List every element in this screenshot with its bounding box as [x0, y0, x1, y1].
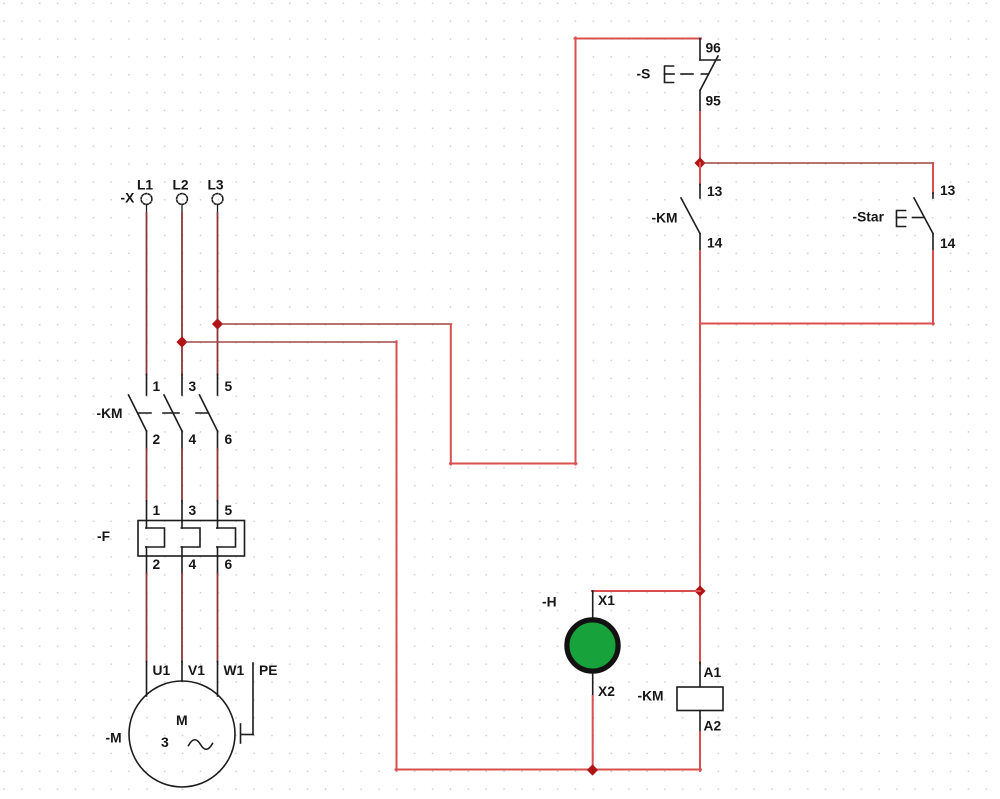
terminal -X L1	[137, 178, 153, 205]
Star pin 13	[933, 183, 956, 198]
F pole2 pin 3	[182, 501, 197, 528]
wire control horizontal y464	[450, 463, 577, 465]
svg-text:V1: V1	[188, 663, 205, 678]
svg-text:4: 4	[189, 432, 197, 447]
wire KM4 to F3 phase2	[181, 449, 183, 502]
wire net L3 vertical	[217, 213, 219, 375]
junction node at 700,591	[694, 585, 705, 596]
svg-text:-M: -M	[106, 731, 122, 746]
svg-text:5: 5	[225, 503, 233, 518]
KM pole1 pin 2	[147, 431, 161, 449]
wire Star branch corner down	[932, 163, 934, 193]
coil pin A2	[700, 711, 721, 734]
F body rectangle	[138, 521, 245, 557]
wire bottom return horizontal y770	[396, 769, 702, 771]
svg-text:-KM: -KM	[652, 211, 678, 226]
KM mechanical linkage dashed	[138, 412, 209, 414]
F pole1 heater element	[146, 528, 165, 547]
svg-text:95: 95	[706, 94, 722, 109]
terminal -X L3	[208, 178, 224, 205]
Star actuator	[897, 211, 924, 227]
svg-text:6: 6	[225, 432, 233, 447]
svg-text:6: 6	[225, 557, 233, 572]
svg-text:-X: -X	[121, 191, 136, 206]
S actuator	[665, 66, 709, 83]
svg-text:96: 96	[706, 41, 722, 56]
wire KM2 to F1 phase1	[146, 449, 148, 502]
svg-text:1: 1	[153, 379, 161, 394]
F pole2 pin 4	[182, 547, 197, 574]
wire L3 tap corner down	[450, 325, 452, 465]
wire net L1 vertical	[146, 213, 148, 375]
svg-text:PE: PE	[259, 663, 277, 678]
motor sine symbol	[189, 740, 213, 750]
svg-text:-KM: -KM	[97, 406, 123, 421]
svg-text:-Star: -Star	[853, 210, 885, 225]
svg-text:M: M	[176, 712, 188, 728]
svg-text:13: 13	[940, 183, 956, 198]
svg-text:X2: X2	[598, 684, 615, 699]
svg-text:2: 2	[153, 432, 161, 447]
KM pole1 blade	[129, 395, 147, 431]
junction on L2	[176, 336, 187, 347]
KM pole3 pin 6	[218, 431, 233, 449]
svg-text:-S: -S	[637, 67, 651, 82]
F pole1 pin 2	[147, 547, 161, 574]
wire net L2 vertical	[181, 213, 183, 375]
F pole3 pin 5	[218, 501, 233, 528]
KM pole2 pin 3	[182, 375, 197, 396]
wire L3 terminal pin	[217, 205, 219, 214]
svg-text:14: 14	[940, 236, 956, 251]
KM aux pin 14	[700, 234, 723, 252]
junction node at 592,770	[587, 764, 598, 775]
wire coil A2 down	[699, 732, 701, 771]
svg-text:W1: W1	[224, 663, 245, 678]
svg-text:-H: -H	[542, 595, 557, 610]
wire Star 14 down	[932, 251, 934, 325]
motor pin V1	[182, 662, 205, 682]
F pole1 pin 1	[147, 501, 161, 528]
wire Star return horizontal y323	[700, 323, 934, 325]
KM aux blade	[681, 198, 700, 234]
svg-text:3: 3	[189, 379, 197, 394]
svg-text:L2: L2	[173, 178, 189, 193]
wire control vertical x577	[575, 38, 577, 465]
svg-text:14: 14	[707, 236, 723, 251]
wire return vertical x392	[396, 341, 398, 770]
svg-text:L3: L3	[208, 178, 224, 193]
svg-text:L1: L1	[137, 178, 153, 193]
svg-text:13: 13	[707, 184, 723, 199]
Star blade	[914, 198, 933, 234]
svg-text:3: 3	[189, 503, 197, 518]
junction on L3	[212, 318, 223, 329]
terminal -X L2	[173, 178, 189, 205]
wire junction to lamp horizontal	[592, 590, 700, 592]
S NC contact bar	[700, 59, 720, 61]
svg-text:3: 3	[161, 734, 169, 750]
wire KM aux 14 down	[699, 251, 701, 663]
S blade	[700, 56, 718, 91]
coil pin A1	[700, 663, 721, 688]
svg-text:A2: A2	[704, 719, 722, 734]
KM pole2 blade	[164, 395, 182, 431]
F pole2 heater element	[181, 528, 200, 547]
motor pin PE	[253, 663, 277, 735]
S pin 95	[700, 91, 721, 113]
KM pole3 blade	[200, 395, 218, 431]
svg-text:-KM: -KM	[638, 689, 664, 704]
wire KM6 to F5 phase3	[217, 449, 219, 502]
wire lamp X2 down	[592, 696, 594, 770]
svg-text:5: 5	[225, 379, 233, 394]
svg-text:-F: -F	[97, 529, 110, 544]
svg-text:X1: X1	[598, 593, 615, 608]
lamp pin X1	[593, 591, 616, 618]
wire F6 to motor W1	[217, 574, 219, 662]
motor pin W1	[218, 662, 245, 697]
wire control top horizontal y38	[575, 38, 702, 40]
wire F4 to motor V1	[181, 574, 183, 662]
svg-text:2: 2	[153, 557, 161, 572]
wire F2 to motor U1	[146, 574, 148, 662]
KM pole1 pin 1	[147, 375, 161, 396]
KM aux pin 13	[700, 163, 723, 199]
svg-text:4: 4	[189, 557, 197, 572]
Star pin 14	[933, 234, 956, 252]
coil body rectangle	[677, 687, 723, 711]
F pole3 pin 6	[218, 547, 233, 574]
svg-text:1: 1	[153, 503, 161, 518]
svg-text:A1: A1	[704, 665, 722, 680]
KM pole3 pin 5	[218, 375, 233, 396]
lamp body	[567, 620, 618, 671]
wire tap L2 return horizontal	[186, 341, 397, 343]
F pole3 heater element	[217, 528, 236, 547]
S pin 96	[700, 39, 721, 61]
svg-text:U1: U1	[153, 663, 171, 678]
junction node at 700,163	[694, 157, 705, 168]
lamp pin X2	[593, 674, 616, 700]
wire tap L3 to control horizontal	[222, 323, 452, 325]
motor pin U1	[147, 662, 171, 697]
motor body circle	[129, 681, 235, 787]
PE frame connection	[241, 724, 254, 743]
wire L2 terminal pin	[181, 205, 183, 214]
KM pole2 pin 4	[182, 431, 197, 449]
wire L1 terminal pin	[146, 205, 148, 214]
wire S95 down to junction	[699, 112, 701, 163]
wire junction to Star branch horizontal	[704, 162, 934, 164]
